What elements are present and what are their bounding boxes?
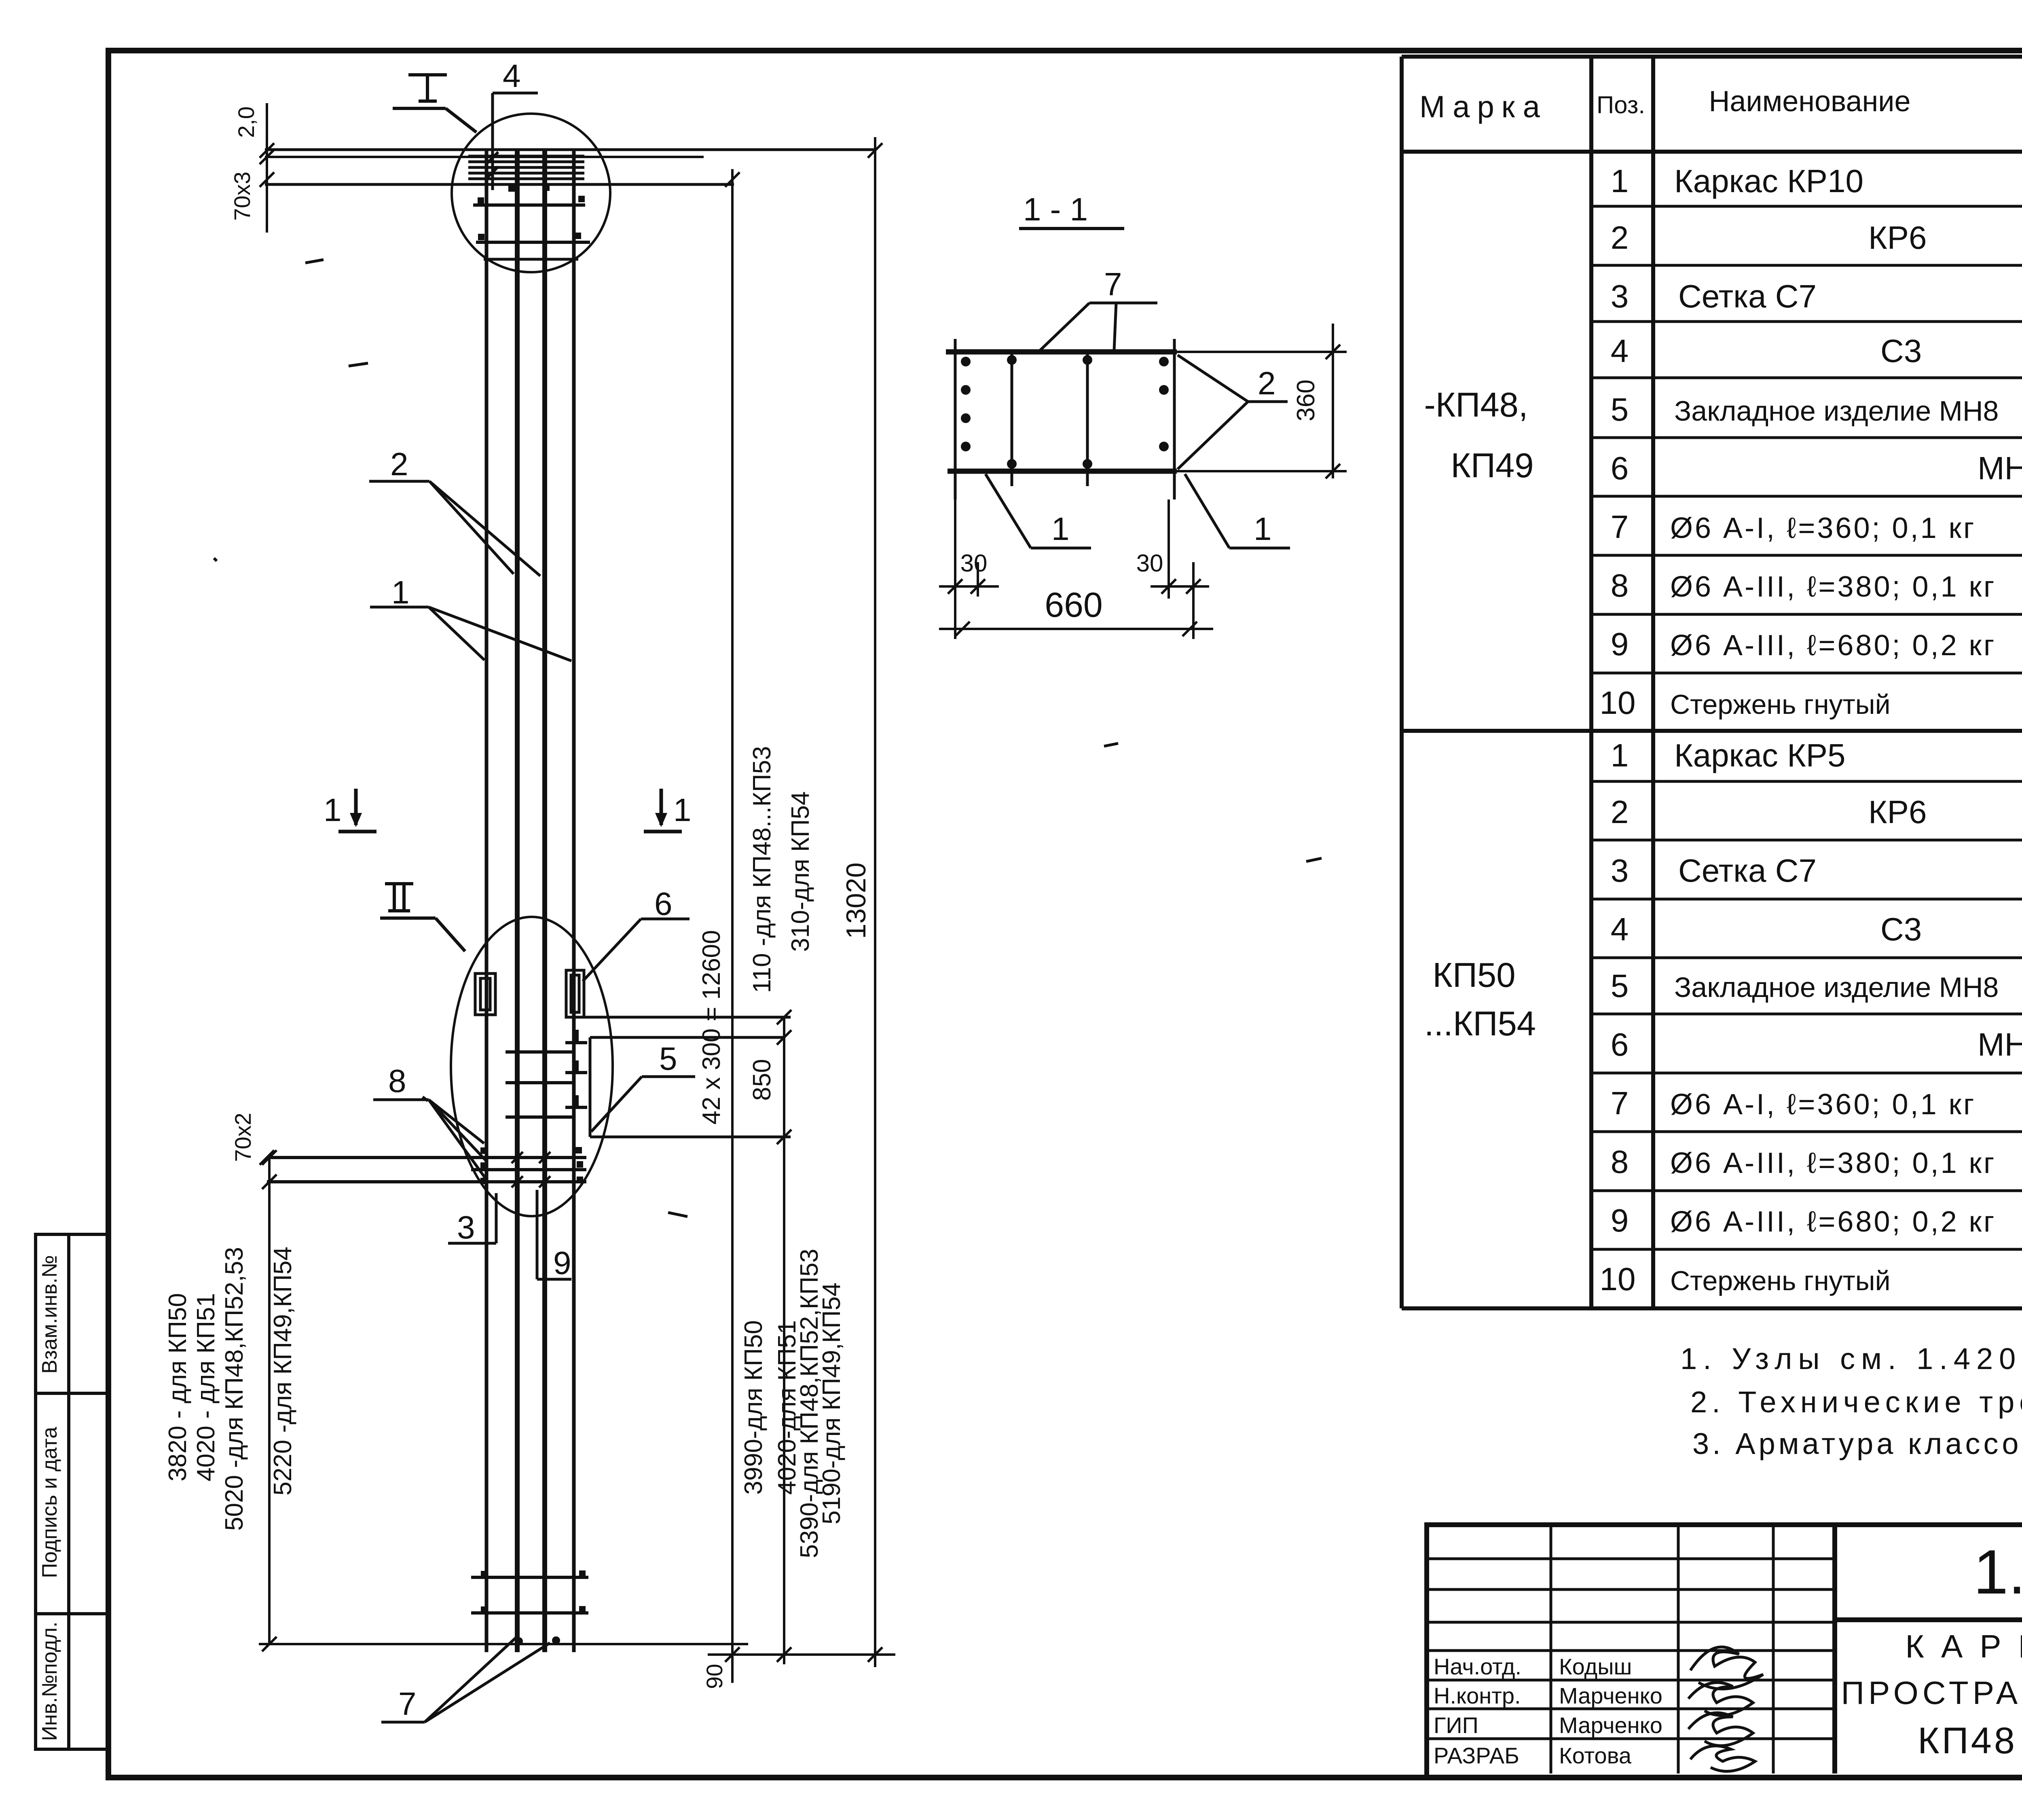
stray scan marks	[214, 260, 1322, 1217]
svg-text:8: 8	[1611, 1144, 1629, 1180]
svg-text:Сетка С7: Сетка С7	[1678, 278, 1817, 314]
second top line	[265, 156, 704, 158]
top anchor dots	[478, 184, 585, 240]
svg-text:2: 2	[1258, 365, 1276, 401]
svg-text:Ø6 А-I, ℓ=360; 0,1 кг: Ø6 А-I, ℓ=360; 0,1 кг	[1670, 512, 1976, 544]
svg-text:4: 4	[1611, 911, 1629, 947]
left stamp boxes	[36, 1234, 108, 1749]
svg-text:110 -для КП48...КП53: 110 -для КП48...КП53	[748, 746, 776, 993]
svg-text:5020 -для КП48,КП52,53: 5020 -для КП48,КП52,53	[220, 1247, 248, 1531]
svg-text:8: 8	[1611, 567, 1629, 603]
svg-text:90: 90	[702, 1664, 727, 1689]
svg-text:4020 - для КП51: 4020 - для КП51	[192, 1293, 220, 1481]
notes under table	[1680, 1342, 2022, 1460]
svg-text:4: 4	[1611, 333, 1629, 369]
svg-text:Подпись и дата: Подпись и дата	[38, 1427, 61, 1578]
embedded item 6 left plate	[475, 973, 495, 1015]
svg-text:Инв.№подл.: Инв.№подл.	[38, 1621, 61, 1741]
section bottom bar	[948, 469, 1177, 474]
svg-text:1: 1	[1611, 163, 1629, 199]
svg-text:Ø6 А-III, ℓ=680; 0,2 кг: Ø6 А-III, ℓ=680; 0,2 кг	[1670, 629, 1996, 662]
svg-text:КП49: КП49	[1451, 447, 1533, 485]
svg-text:Поз.: Поз.	[1597, 91, 1645, 119]
svg-text:3: 3	[1611, 278, 1629, 314]
svg-text:10: 10	[1600, 1261, 1636, 1297]
svg-text:850: 850	[748, 1059, 776, 1100]
svg-text:С3: С3	[1880, 911, 1922, 947]
section verticals	[955, 339, 1174, 499]
svg-text:3990-для КП50: 3990-для КП50	[740, 1320, 768, 1494]
svg-text:7: 7	[1611, 509, 1629, 545]
top edge line long	[265, 148, 876, 151]
svg-text:8: 8	[388, 1063, 406, 1099]
svg-text:МН32: МН32	[1978, 1026, 2022, 1062]
signature table texts	[1434, 1654, 1662, 1768]
lower tie bars	[471, 1577, 588, 1613]
svg-text:7: 7	[398, 1686, 417, 1722]
svg-text:КАРКАС: КАРКАС	[1905, 1628, 2022, 1664]
table header texts	[1419, 66, 2022, 148]
svg-text:Каркас КР5: Каркас КР5	[1674, 737, 1846, 773]
top mesh lines	[468, 156, 584, 179]
bottom tips dots	[515, 1636, 560, 1645]
svg-text:КР6: КР6	[1868, 794, 1927, 830]
svg-text:6: 6	[1611, 1026, 1629, 1062]
svg-text:Нач.отд.: Нач.отд.	[1434, 1654, 1521, 1679]
table rows group 1	[1600, 163, 2022, 721]
svg-text:С3: С3	[1880, 333, 1922, 369]
rotated texts 3990 4020 5390 5190	[740, 1249, 846, 1558]
svg-text:Кодыш: Кодыш	[1559, 1654, 1632, 1679]
svg-text:70х2: 70х2	[230, 1113, 256, 1162]
section dim 360	[1153, 324, 1347, 478]
bottom anchor bars	[267, 1158, 586, 1182]
svg-text:30: 30	[960, 550, 988, 577]
section dim 660	[939, 622, 1213, 636]
left stamp labels	[38, 1255, 61, 1741]
svg-text:1. Узлы см. 1.420.1-32.2-2У: 1. Узлы см. 1.420.1-32.2-2У	[1680, 1342, 2022, 1376]
label II	[380, 884, 465, 951]
svg-text:10: 10	[1600, 685, 1636, 721]
svg-text:3. Арматура классов А-III, А-I: 3. Арматура классов А-III, А-I по ГОСТ 5…	[1692, 1427, 2022, 1460]
label I	[393, 75, 476, 132]
title block name	[1841, 1628, 2022, 1761]
svg-text:3: 3	[1611, 853, 1629, 889]
svg-text:РАЗРАБ: РАЗРАБ	[1434, 1743, 1519, 1768]
svg-text:Наименование: Наименование	[1709, 85, 1910, 118]
cage vertical bar 1	[485, 150, 489, 1652]
svg-text:Н.контр.: Н.контр.	[1434, 1683, 1521, 1708]
svg-text:660: 660	[1045, 586, 1103, 624]
dim line 42x300 vertical	[725, 169, 740, 1683]
svg-text:2: 2	[390, 446, 408, 482]
svg-text:9: 9	[1611, 1202, 1629, 1238]
lower tie dots	[481, 1570, 586, 1613]
svg-text:310-для КП54: 310-для КП54	[787, 791, 814, 952]
bottom anchor dots	[480, 1147, 583, 1184]
svg-text:70х3: 70х3	[229, 171, 255, 220]
svg-text:5: 5	[1611, 968, 1629, 1004]
svg-text:1: 1	[324, 792, 342, 828]
section dots	[961, 355, 1169, 469]
svg-text:2: 2	[1611, 220, 1629, 256]
svg-text:1: 1	[391, 574, 410, 610]
detail circle I	[452, 114, 610, 272]
850 zone outline	[585, 1017, 791, 1137]
marka group 2	[1424, 956, 1536, 1043]
svg-text:Взам.инв.№: Взам.инв.№	[38, 1255, 61, 1373]
svg-text:Ø6 А-I, ℓ=360; 0,1 кг: Ø6 А-I, ℓ=360; 0,1 кг	[1670, 1088, 1976, 1121]
svg-text:7: 7	[1611, 1085, 1629, 1121]
svg-text:Стержень гнутый: Стержень гнутый	[1670, 689, 1891, 720]
embedded item 6 right plate	[566, 970, 584, 1017]
svg-text:2,0: 2,0	[233, 106, 259, 138]
svg-text:5: 5	[659, 1041, 677, 1077]
svg-text:360: 360	[1292, 379, 1320, 421]
svg-text:...КП54: ...КП54	[1424, 1005, 1536, 1043]
section dim 30 right	[1151, 499, 1209, 639]
dim line 850/3990 vertical	[777, 1010, 791, 1664]
cage vertical bar 4	[572, 150, 576, 1652]
section top bar	[946, 349, 1177, 355]
svg-text:Стержень гнутый: Стержень гнутый	[1670, 1266, 1891, 1296]
svg-text:3: 3	[457, 1209, 475, 1245]
tick top-left dims	[260, 1150, 274, 1165]
table rows group 2	[1600, 737, 2022, 1297]
svg-text:Марка: Марка	[1419, 90, 1547, 124]
left top dim line vertical	[260, 103, 274, 233]
svg-text:-КП48,: -КП48,	[1424, 386, 1528, 424]
marka group 1	[1424, 386, 1533, 485]
svg-text:Марченко: Марченко	[1559, 1712, 1662, 1738]
svg-text:5: 5	[1611, 392, 1629, 427]
svg-text:1: 1	[1611, 737, 1629, 773]
svg-text:Закладное изделие МН8: Закладное изделие МН8	[1674, 971, 1999, 1003]
cage vertical bar 3	[542, 150, 547, 1652]
svg-text:2. Технические требования см.: 2. Технические требования см. 1.420.1-32…	[1690, 1385, 2022, 1419]
bottom dim line	[708, 1653, 895, 1656]
svg-text:Каркас КР10: Каркас КР10	[1674, 163, 1863, 199]
svg-text:Ø6 А-III, ℓ=680; 0,2 кг: Ø6 А-III, ℓ=680; 0,2 кг	[1670, 1206, 1996, 1238]
dim line 13020 vertical	[868, 137, 882, 1667]
svg-text:КР6: КР6	[1868, 220, 1927, 256]
top bar C	[484, 258, 578, 261]
svg-text:Сетка С7: Сетка С7	[1678, 853, 1817, 889]
rotated texts 3820 4020 5020	[164, 1246, 297, 1531]
svg-text:1.420.1-32.2-2-13: 1.420.1-32.2-2-13	[1973, 1537, 2022, 1607]
svg-text:5190-для КП49,КП54: 5190-для КП49,КП54	[818, 1282, 846, 1524]
svg-text:МН32: МН32	[1978, 450, 2022, 486]
svg-text:1: 1	[673, 792, 692, 828]
svg-text:13020: 13020	[841, 862, 871, 939]
svg-text:6: 6	[1611, 450, 1629, 486]
top bar B with dots	[476, 241, 590, 244]
svg-text:КП48 ... КП54: КП48 ... КП54	[1918, 1720, 2022, 1761]
detail ellipse II	[451, 917, 613, 1216]
section dim 30 left	[939, 499, 999, 639]
svg-text:1 - 1: 1 - 1	[1023, 191, 1088, 227]
svg-text:1: 1	[1254, 511, 1272, 547]
svg-text:9: 9	[1611, 626, 1629, 662]
hooked bars item 5	[505, 1030, 587, 1117]
svg-text:Закладное изделие МН8: Закладное изделие МН8	[1674, 395, 1999, 427]
svg-text:2: 2	[1611, 794, 1629, 830]
bottom anchor tick marks	[512, 1152, 550, 1187]
svg-text:42 х 300 = 12600: 42 х 300 = 12600	[698, 930, 725, 1125]
svg-text:1: 1	[1051, 511, 1070, 547]
top bar A with dots	[473, 203, 585, 207]
svg-text:КП50: КП50	[1432, 956, 1515, 995]
bottom cage line	[259, 1643, 748, 1645]
svg-text:ПРОСТРАНСТВЕННЫЙ: ПРОСТРАНСТВЕННЫЙ	[1841, 1674, 2022, 1711]
svg-text:Ø6 А-III, ℓ=380; 0,1 кг: Ø6 А-III, ℓ=380; 0,1 кг	[1670, 571, 1996, 603]
third top line to dim 12600	[265, 183, 734, 186]
svg-text:ГИП: ГИП	[1434, 1712, 1478, 1738]
left lower dim vertical 5220	[262, 1150, 277, 1651]
svg-text:3820 - для КП50: 3820 - для КП50	[164, 1293, 192, 1481]
cage vertical bar 2	[515, 150, 520, 1652]
svg-text:4: 4	[503, 58, 521, 94]
svg-text:Марченко: Марченко	[1559, 1683, 1662, 1708]
svg-text:9: 9	[553, 1245, 571, 1281]
svg-text:7: 7	[1104, 266, 1122, 302]
svg-text:5220 -для КП49,КП54: 5220 -для КП49,КП54	[269, 1246, 297, 1495]
svg-text:6: 6	[654, 886, 673, 922]
svg-text:30: 30	[1136, 550, 1163, 577]
signatures squiggles	[1688, 1647, 1763, 1771]
svg-text:Котова: Котова	[1559, 1743, 1632, 1768]
table grid	[1402, 57, 2022, 1308]
svg-text:Ø6 А-III, ℓ=380; 0,1 кг: Ø6 А-III, ℓ=380; 0,1 кг	[1670, 1147, 1996, 1179]
